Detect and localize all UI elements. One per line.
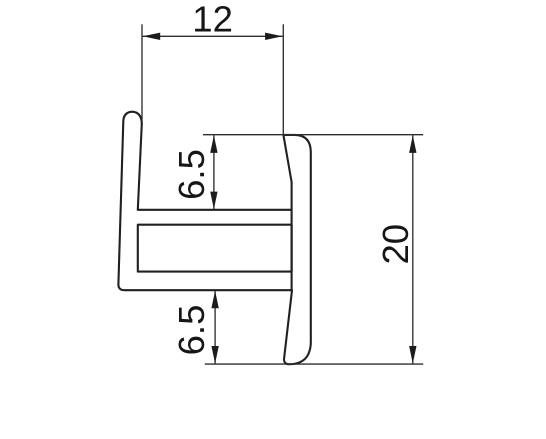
extension line right of dim 12 <box>282 24 284 134</box>
arrowhead 6.5bottom down <box>211 346 218 364</box>
arrowhead dim12 right <box>265 33 283 40</box>
svg-text:6.5: 6.5 <box>171 149 212 200</box>
dimension line 6.5 bottom <box>214 291 216 364</box>
arrowhead 6.5top down <box>210 192 217 210</box>
svg-text:6.5: 6.5 <box>171 305 212 356</box>
arrowhead 6.5top up <box>210 135 217 153</box>
arrowhead 20 up <box>409 135 416 153</box>
fin inner edge (upper slant + vertical) <box>284 136 292 290</box>
inner hole rectangle <box>138 225 292 272</box>
dimension line 12 <box>143 35 283 37</box>
arrowhead 20 down <box>409 346 416 364</box>
dimension line 6.5 top <box>213 135 215 209</box>
profile outline: left arm cap, outer wall, bottom web edge, lower fin blade, fin outer wall, fin top <box>118 112 310 365</box>
extension line top (for 6.5 and 20) <box>203 134 423 136</box>
arrowhead 6.5bottom up <box>211 291 218 309</box>
left finger inner edge + web top surface <box>138 124 292 210</box>
svg-text:12: 12 <box>192 0 233 40</box>
svg-text:20: 20 <box>375 224 416 265</box>
extension line left of dim 12 <box>141 24 143 123</box>
dimension line 20 <box>412 135 414 363</box>
arrowhead dim12 left <box>143 33 161 40</box>
extension line bottom (for 6.5 and 20) <box>205 363 423 365</box>
